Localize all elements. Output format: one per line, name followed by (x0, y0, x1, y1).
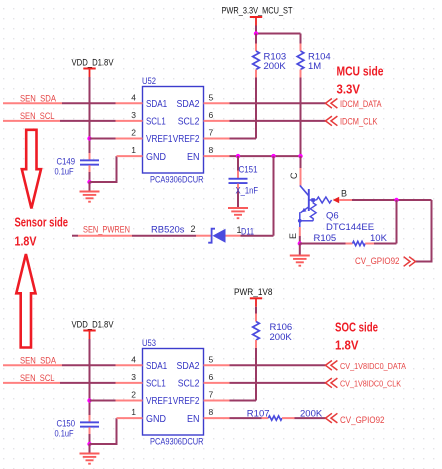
svg-text:EN: EN (187, 414, 200, 425)
net label SEN_SDA (bottom) (20, 356, 56, 366)
ground under C149 (80, 182, 100, 202)
wire SDA2 to port (230, 102, 326, 104)
wire R105 to B (396, 200, 398, 244)
svg-text:PWR_1V8: PWR_1V8 (234, 287, 273, 297)
svg-text:PWR_3.3V_MCU_ST: PWR_3.3V_MCU_ST (222, 6, 293, 16)
U53 pin 2 stub (116, 390, 143, 401)
pin label C (collector) (289, 172, 299, 179)
annotation arrow up (sensor side) (16, 254, 35, 348)
wire SEN_PWREN (72, 235, 196, 237)
net label SEN_SDA (top) (20, 94, 56, 104)
net label B with arrow (333, 189, 347, 204)
junction GND-C150 (87, 442, 91, 446)
svg-text:1: 1 (131, 407, 136, 417)
svg-text:1.8V: 1.8V (335, 338, 359, 353)
svg-text:4: 4 (131, 93, 136, 103)
svg-text:VREF2: VREF2 (173, 134, 200, 145)
junction EN-C151 (236, 154, 240, 158)
U53 pin 1 stub (117, 407, 143, 418)
svg-text:SDA1: SDA1 (146, 99, 168, 110)
junction EN-D11 (271, 154, 275, 158)
svg-text:MCU side: MCU side (337, 64, 384, 79)
wire SEN_SCL (bottom) (3, 382, 116, 384)
svg-text:4: 4 (131, 355, 136, 365)
power net PWR_1V8 (234, 287, 273, 313)
wire VREF1 to VDD (top) (90, 138, 116, 140)
ground under C151 (228, 199, 248, 218)
svg-text:IDCM_DATA: IDCM_DATA (340, 99, 382, 109)
port IDCM_DATA (326, 99, 382, 110)
port CV_1V8IDC0_CLK (326, 378, 402, 389)
svg-text:C151: C151 (239, 165, 258, 176)
svg-text:R105: R105 (314, 233, 337, 244)
svg-text:SEN_PWREN: SEN_PWREN (83, 225, 130, 235)
wire SDA2 to port (bottom) (230, 364, 326, 366)
capacitor C151 X_1nF (229, 156, 259, 199)
IC U52 PCA9306DCUR box (142, 76, 204, 185)
svg-text:SCL2: SCL2 (178, 117, 200, 128)
svg-text:EN: EN (187, 152, 200, 163)
svg-text:E: E (288, 233, 298, 239)
pin label E (emitter) (288, 233, 298, 239)
svg-text:Sensor side: Sensor side (15, 215, 69, 230)
svg-text:SCL1: SCL1 (146, 117, 166, 128)
svg-text:SEN_SCL: SEN_SCL (20, 111, 55, 121)
wire SEN_SCL (top) (3, 120, 116, 122)
wire VDD vertical (top) (89, 81, 91, 160)
svg-text:RB520s: RB520s (151, 225, 185, 236)
power net VDD_D1.8V (bottom) (72, 320, 114, 344)
junction GND-C149 (87, 180, 91, 184)
resistor R105 10K (300, 233, 397, 246)
svg-text:B: B (341, 189, 347, 199)
wire SCL2 to port (230, 120, 326, 122)
port CV_GPIO92 (top) (355, 256, 416, 267)
svg-text:6: 6 (209, 372, 214, 382)
IC U53 PCA9306DCUR box (142, 338, 204, 447)
svg-text:1M: 1M (308, 61, 321, 72)
wire D11 to EN (241, 156, 274, 236)
wire R104 to EN pin8 (300, 78, 302, 157)
U52 pin 4 stub (116, 93, 143, 104)
svg-text:CV_1V8IDC0_CLK: CV_1V8IDC0_CLK (340, 379, 401, 389)
wire R107 to port (295, 417, 326, 419)
wire power to R104 branch (256, 33, 301, 35)
svg-text:CV_GPIO92: CV_GPIO92 (340, 415, 385, 425)
wire to CV_GPIO92 port (top) (416, 200, 432, 262)
U52 pin 5 stub (204, 93, 230, 104)
svg-text:3: 3 (131, 110, 136, 120)
annotation Sensor side (15, 215, 69, 249)
port CV_GPIO92 (bottom) (326, 413, 385, 425)
wire R106 to VREF2 pin7 (bottom) (229, 348, 256, 401)
svg-text:3: 3 (131, 372, 136, 382)
U53 pin 3 stub (116, 372, 143, 383)
ground under C150 (80, 444, 100, 464)
wire VDD vertical (bottom) (89, 343, 91, 422)
svg-text:7: 7 (209, 390, 214, 400)
ground under Q6 (290, 244, 310, 266)
U53 pin 7 stub (204, 390, 230, 401)
svg-text:7: 7 (209, 128, 214, 138)
svg-text:SEN_SCL: SEN_SCL (20, 373, 55, 383)
U52 pin 8 stub (204, 145, 230, 156)
svg-text:GND: GND (146, 152, 166, 163)
svg-text:U52: U52 (142, 76, 156, 87)
junction B-R105 (394, 198, 398, 202)
svg-text:2: 2 (131, 128, 136, 138)
svg-text:1.8V: 1.8V (15, 234, 37, 249)
U53 pin names (146, 361, 200, 425)
svg-text:6: 6 (209, 110, 214, 120)
svg-text:VDD_D1.8V: VDD_D1.8V (72, 320, 114, 330)
U52 pin 6 stub (204, 110, 230, 121)
svg-text:8: 8 (209, 145, 214, 155)
transistor Q6 DTC144EE (298, 156, 374, 243)
junction Q6 emitter-gnd-R105 (298, 241, 302, 245)
U52 pin 7 stub (204, 128, 230, 139)
port IDCM_CLK (326, 116, 378, 127)
U53 pin 8 stub (204, 407, 230, 418)
svg-text:SDA2: SDA2 (177, 361, 200, 372)
svg-text:PCA9306DCUR: PCA9306DCUR (150, 175, 204, 185)
junction VDD-VREF1 (top) (87, 136, 91, 140)
svg-text:SCL2: SCL2 (178, 379, 200, 390)
svg-text:VDD_D1.8V: VDD_D1.8V (72, 58, 114, 68)
net label SEN_SCL (top) (20, 111, 55, 121)
svg-text:0.1uF: 0.1uF (55, 167, 74, 178)
wire GND pin1 (bottom) (90, 418, 117, 444)
power net PWR_3.3V_MCU_ST (222, 6, 293, 34)
annotation arrow down (sensor side) (22, 130, 41, 209)
U53 pin 5 stub (204, 355, 230, 366)
svg-text:SEN_SDA: SEN_SDA (20, 94, 56, 104)
U52 pin 1 stub (117, 145, 143, 156)
U53 pin 6 stub (204, 372, 230, 383)
svg-text:GND: GND (146, 414, 166, 425)
svg-text:SEN_SDA: SEN_SDA (20, 356, 56, 366)
svg-text:5: 5 (209, 355, 214, 365)
U52 pin 2 stub (116, 128, 143, 139)
svg-text:PCA9306DCUR: PCA9306DCUR (150, 437, 204, 447)
U53 pin 4 stub (116, 355, 143, 366)
svg-text:U53: U53 (142, 338, 156, 349)
resistor R107 (247, 409, 323, 421)
junction VDD-VREF1 (bottom) (87, 398, 91, 402)
svg-text:SOC side: SOC side (335, 320, 378, 335)
svg-text:CV_1V8IDC0_DATA: CV_1V8IDC0_DATA (340, 361, 406, 371)
svg-text:200K: 200K (264, 61, 287, 72)
svg-text:5: 5 (209, 93, 214, 103)
junction power branch (254, 31, 258, 35)
svg-text:2: 2 (131, 390, 136, 400)
svg-text:SDA1: SDA1 (146, 361, 168, 372)
junction EN-R104-Q6 (298, 154, 302, 158)
wire VREF1 to VDD (bottom) (90, 400, 116, 402)
wire SEN_SDA (bottom) (3, 364, 116, 366)
svg-text:CV_GPIO92: CV_GPIO92 (355, 256, 400, 266)
resistor R103 200K (253, 34, 287, 78)
resistor R106 200K (253, 313, 293, 348)
svg-text:DTC144EE: DTC144EE (326, 222, 374, 233)
wire SEN_SDA (top) (3, 102, 116, 104)
resistor R104 1M (297, 34, 331, 78)
svg-text:2: 2 (191, 224, 196, 234)
port CV_1V8IDC0_DATA (326, 361, 407, 372)
diode D11 RB520s (151, 224, 254, 243)
wire GND pin1 (top) (90, 156, 117, 182)
annotation SOC side (335, 320, 378, 353)
svg-text:VREF1: VREF1 (146, 396, 173, 407)
svg-text:3.3V: 3.3V (337, 82, 361, 97)
wire EN to R107 (230, 417, 262, 419)
svg-text:1: 1 (131, 145, 136, 155)
svg-text:IDCM_CLK: IDCM_CLK (340, 117, 378, 127)
svg-text:R107: R107 (247, 409, 270, 420)
wire R103 to VREF2 pin7 (229, 78, 256, 139)
svg-text:SCL1: SCL1 (146, 379, 166, 390)
annotation MCU side (337, 64, 384, 97)
wire EN net (230, 155, 301, 157)
svg-text:10K: 10K (370, 233, 388, 244)
svg-text:VREF1: VREF1 (146, 134, 173, 145)
svg-text:200K: 200K (270, 332, 293, 343)
wire SCL2 to port (bottom) (230, 382, 326, 384)
svg-text:8: 8 (209, 407, 214, 417)
net label SEN_PWREN (83, 225, 130, 235)
svg-text:X_1nF: X_1nF (236, 186, 259, 197)
net label SEN_SCL (bottom) (20, 373, 55, 383)
U52 pin 3 stub (116, 110, 143, 121)
power net VDD_D1.8V (top) (72, 58, 114, 82)
svg-text:VREF2: VREF2 (173, 396, 200, 407)
U52 pin names (146, 99, 200, 163)
svg-text:SDA2: SDA2 (177, 99, 200, 110)
svg-text:0.1uF: 0.1uF (55, 429, 74, 440)
capacitor C150 0.1uF (55, 419, 100, 445)
wire base B net (339, 199, 431, 201)
capacitor C149 0.1uF (55, 157, 100, 183)
svg-text:C: C (289, 172, 299, 179)
svg-text:Q6: Q6 (326, 211, 339, 222)
